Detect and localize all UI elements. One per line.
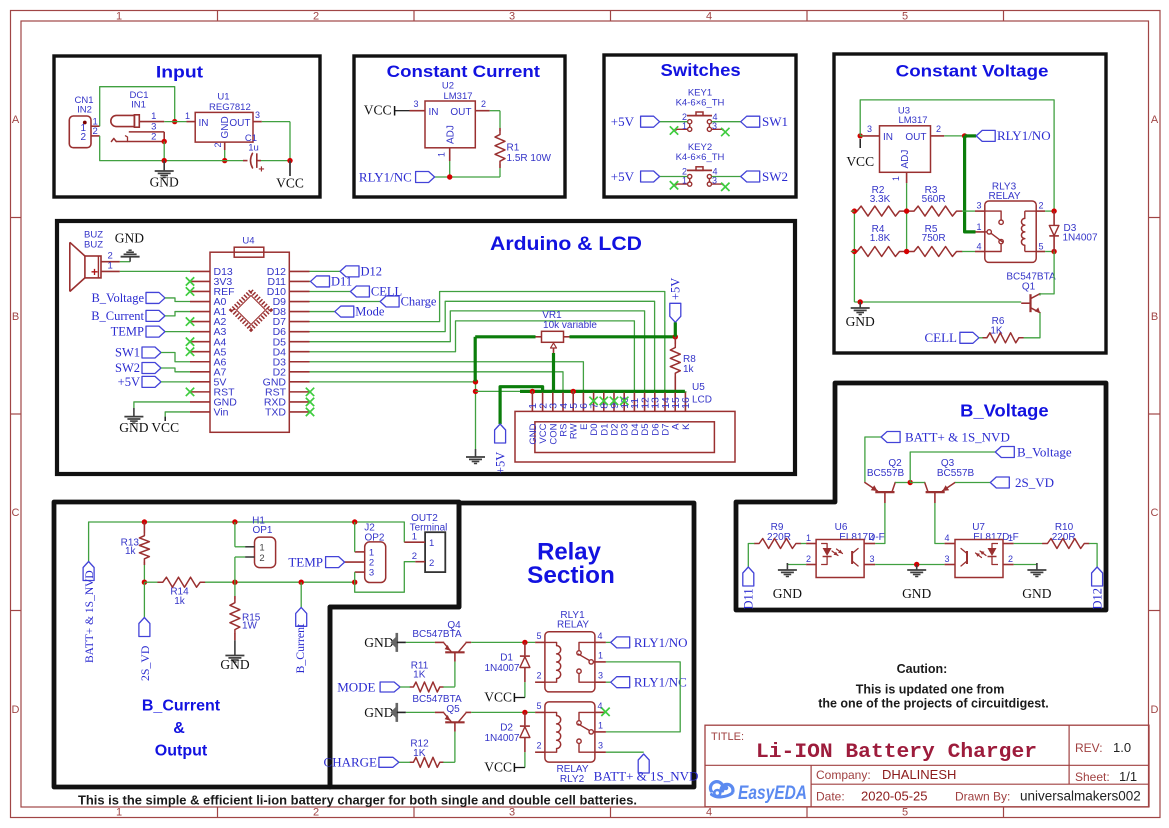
svg-text:1.0: 1.0 (1113, 740, 1131, 755)
svg-text:3: 3 (944, 554, 949, 564)
svg-text:RLY1/NC: RLY1/NC (359, 170, 412, 185)
svg-text:D12: D12 (1091, 588, 1105, 610)
svg-text:LM317: LM317 (898, 115, 927, 126)
svg-text:5: 5 (902, 11, 908, 23)
svg-text:1: 1 (116, 807, 122, 819)
svg-text:GND: GND (115, 230, 144, 245)
svg-text:2: 2 (151, 131, 156, 142)
svg-text:5: 5 (902, 807, 908, 819)
svg-text:BC547BTA: BC547BTA (412, 629, 462, 640)
svg-text:1u: 1u (248, 143, 259, 154)
svg-text:Vin: Vin (214, 407, 229, 419)
svg-text:2: 2 (412, 551, 417, 562)
svg-text:1: 1 (108, 261, 113, 272)
svg-text:B_Current: B_Current (91, 309, 144, 323)
svg-text:This is updated one from: This is updated one from (856, 682, 1005, 696)
svg-text:2020-05-25: 2020-05-25 (861, 789, 928, 804)
svg-text:3.3K: 3.3K (870, 194, 891, 205)
svg-text:1k: 1k (174, 596, 186, 607)
svg-text:B_Current: B_Current (142, 698, 221, 715)
svg-text:GND: GND (1022, 586, 1051, 601)
svg-text:IN: IN (883, 132, 893, 143)
svg-text:A: A (1151, 114, 1159, 126)
svg-text:Q1: Q1 (1022, 282, 1036, 293)
svg-text:Input: Input (156, 62, 204, 81)
svg-text:+: + (91, 265, 98, 279)
svg-text:D12: D12 (361, 264, 383, 278)
svg-text:2: 2 (429, 558, 434, 569)
svg-text:1k: 1k (683, 364, 695, 375)
svg-text:This is the simple & efficient: This is the simple & efficient li-ion ba… (78, 793, 637, 808)
svg-text:Date:: Date: (816, 790, 845, 804)
svg-text:4: 4 (870, 533, 875, 543)
svg-text:3: 3 (598, 741, 603, 751)
svg-text:+5V: +5V (611, 114, 635, 129)
svg-text:universalmakers002: universalmakers002 (1020, 789, 1141, 804)
svg-text:IN1: IN1 (131, 100, 146, 111)
svg-text:EasyEDA: EasyEDA (738, 782, 807, 804)
svg-text:U2: U2 (442, 81, 454, 92)
svg-text:2: 2 (81, 132, 87, 143)
svg-text:Output: Output (155, 743, 208, 760)
svg-text:10k variable: 10k variable (543, 320, 597, 331)
svg-text:A: A (12, 114, 20, 126)
svg-text:GND: GND (119, 420, 148, 435)
svg-text:OUT: OUT (229, 118, 250, 129)
svg-text:1K: 1K (413, 670, 426, 681)
svg-text:1N4007: 1N4007 (484, 663, 519, 674)
svg-text:1: 1 (891, 176, 901, 181)
svg-text:U1: U1 (217, 92, 229, 103)
svg-text:5: 5 (1039, 242, 1044, 252)
svg-text:VCC: VCC (484, 690, 512, 705)
svg-text:RLY1/NO: RLY1/NO (997, 128, 1051, 143)
svg-text:Drawn By:: Drawn By: (955, 790, 1010, 804)
svg-text:3: 3 (509, 807, 515, 819)
svg-text:SW2: SW2 (115, 361, 140, 375)
svg-text:2S_VD: 2S_VD (138, 645, 152, 681)
svg-text:&: & (173, 720, 185, 737)
svg-text:2: 2 (536, 671, 541, 681)
svg-text:4: 4 (944, 533, 949, 543)
svg-text:B_Voltage: B_Voltage (960, 401, 1049, 421)
svg-text:1/1: 1/1 (1119, 769, 1137, 784)
svg-text:1.5R 10W: 1.5R 10W (507, 153, 552, 164)
svg-text:3: 3 (598, 671, 603, 681)
svg-text:ADJ: ADJ (446, 125, 457, 144)
svg-text:B_Voltage: B_Voltage (1017, 445, 1072, 460)
svg-text:1k: 1k (125, 546, 137, 557)
svg-text:+5V: +5V (118, 375, 140, 389)
svg-text:REG7812: REG7812 (209, 102, 251, 113)
svg-text:Charge: Charge (401, 295, 437, 309)
svg-text:1: 1 (429, 538, 434, 549)
svg-text:TEMP: TEMP (111, 325, 144, 339)
svg-text:Sheet:: Sheet: (1075, 770, 1110, 784)
svg-text:16: 16 (680, 397, 692, 409)
svg-text:GND: GND (220, 657, 249, 672)
svg-text:the one of the projects of cir: the one of the projects of circuitdigest… (818, 696, 1049, 710)
svg-text:2: 2 (936, 124, 941, 134)
svg-text:B: B (1151, 311, 1158, 323)
svg-text:D11: D11 (742, 588, 756, 609)
svg-text:1: 1 (259, 543, 264, 554)
svg-text:R1: R1 (507, 143, 520, 154)
svg-text:5: 5 (536, 631, 541, 641)
svg-text:2: 2 (481, 99, 486, 109)
svg-text:IN2: IN2 (77, 105, 92, 116)
svg-text:U4: U4 (242, 236, 254, 247)
svg-text:GND: GND (364, 635, 393, 650)
svg-text:MODE: MODE (337, 679, 375, 694)
svg-text:D11: D11 (331, 274, 352, 288)
svg-text:CELL: CELL (925, 330, 958, 345)
svg-text:VCC: VCC (276, 175, 304, 190)
svg-text:BUZ: BUZ (84, 239, 103, 250)
svg-text:GND: GND (150, 175, 179, 190)
svg-text:REV:: REV: (1075, 741, 1103, 755)
svg-text:3: 3 (255, 110, 260, 120)
svg-text:1.8K: 1.8K (870, 233, 891, 244)
svg-text:BATT+ & 1S_NVD: BATT+ & 1S_NVD (905, 430, 1010, 445)
svg-text:RELAY: RELAY (557, 620, 589, 631)
svg-text:Arduino & LCD: Arduino & LCD (490, 233, 642, 255)
svg-text:3: 3 (509, 11, 515, 23)
svg-text:RLY1/NO: RLY1/NO (634, 635, 688, 650)
svg-text:BATT+ & 1S_NVD: BATT+ & 1S_NVD (84, 570, 96, 663)
svg-text:TEMP: TEMP (288, 555, 323, 570)
svg-text:RLY2: RLY2 (560, 774, 585, 785)
svg-text:1N4007: 1N4007 (1063, 233, 1098, 244)
svg-text:4: 4 (976, 242, 981, 252)
svg-text:TXD: TXD (265, 407, 286, 419)
svg-text:+5V: +5V (494, 452, 508, 474)
svg-text:K4-6×6_TH: K4-6×6_TH (676, 152, 725, 163)
svg-text:1: 1 (682, 121, 687, 131)
svg-text:VCC: VCC (846, 154, 874, 169)
svg-text:560R: 560R (922, 194, 946, 205)
svg-text:+5V: +5V (611, 169, 635, 184)
svg-text:GND: GND (902, 586, 931, 601)
svg-text:BATT+ & 1S_NVD: BATT+ & 1S_NVD (594, 769, 699, 784)
svg-text:BC557B: BC557B (937, 468, 975, 479)
svg-text:3: 3 (712, 121, 717, 131)
svg-text:4: 4 (598, 701, 603, 711)
svg-text:1: 1 (598, 650, 603, 660)
svg-text:SW1: SW1 (762, 114, 788, 129)
svg-text:2: 2 (1039, 201, 1044, 211)
svg-text:750R: 750R (922, 233, 946, 244)
svg-text:+: + (258, 164, 264, 176)
svg-text:GND: GND (364, 705, 393, 720)
svg-text:OP1: OP1 (252, 525, 272, 536)
svg-text:2: 2 (313, 11, 319, 23)
svg-text:3: 3 (712, 176, 717, 186)
svg-text:1: 1 (976, 222, 981, 232)
svg-text:GND: GND (846, 314, 875, 329)
svg-text:Li-ION Battery Charger: Li-ION Battery Charger (756, 741, 1037, 764)
svg-text:TITLE:: TITLE: (711, 731, 744, 743)
svg-text:3: 3 (369, 568, 374, 579)
svg-text:2: 2 (1008, 554, 1013, 564)
svg-text:4: 4 (706, 807, 712, 819)
svg-text:RLY1/NC: RLY1/NC (634, 675, 687, 690)
svg-text:1: 1 (437, 152, 447, 157)
svg-text:2S_VD: 2S_VD (1015, 475, 1054, 490)
svg-text:220R: 220R (1052, 532, 1076, 543)
svg-text:DHALINESH: DHALINESH (882, 767, 956, 782)
svg-text:VCC: VCC (364, 103, 392, 118)
svg-text:1W: 1W (242, 621, 258, 632)
svg-text:1: 1 (116, 11, 122, 23)
svg-text:VCC: VCC (151, 420, 179, 435)
svg-text:IN: IN (199, 118, 209, 129)
svg-text:3: 3 (976, 201, 981, 211)
svg-text:1: 1 (682, 176, 687, 186)
svg-text:+5V: +5V (669, 278, 683, 300)
svg-text:Constant Current: Constant Current (387, 62, 541, 81)
svg-text:C: C (1151, 507, 1159, 519)
svg-text:2: 2 (259, 553, 264, 564)
svg-text:2: 2 (313, 807, 319, 819)
svg-text:K: K (681, 423, 692, 430)
svg-text:3: 3 (413, 99, 418, 109)
svg-text:2: 2 (536, 741, 541, 751)
svg-text:BC557B: BC557B (867, 468, 905, 479)
svg-text:Company:: Company: (816, 768, 871, 782)
svg-text:GND: GND (773, 586, 802, 601)
svg-text:1: 1 (1008, 533, 1013, 543)
svg-text:1: 1 (806, 533, 811, 543)
svg-text:IN: IN (429, 107, 439, 118)
svg-text:4: 4 (706, 11, 712, 23)
svg-text:Caution:: Caution: (897, 662, 948, 676)
svg-text:OUT: OUT (905, 132, 926, 143)
svg-text:1: 1 (598, 720, 603, 730)
svg-text:SW2: SW2 (762, 169, 788, 184)
svg-text:1: 1 (185, 111, 190, 121)
svg-text:Q5: Q5 (446, 704, 460, 715)
svg-text:2: 2 (213, 142, 223, 147)
svg-text:B_Current: B_Current (293, 623, 307, 674)
svg-text:5: 5 (536, 701, 541, 711)
svg-text:CHARGE: CHARGE (324, 755, 378, 770)
svg-text:2: 2 (93, 126, 98, 137)
svg-text:OUT: OUT (450, 107, 471, 118)
svg-text:2: 2 (806, 554, 811, 564)
svg-text:Switches: Switches (661, 60, 741, 80)
svg-text:3: 3 (867, 124, 872, 134)
svg-text:B: B (12, 311, 19, 323)
svg-text:4: 4 (598, 631, 603, 641)
svg-text:U5: U5 (692, 382, 705, 393)
svg-text:EL817D-F: EL817D-F (839, 532, 885, 543)
svg-text:3: 3 (870, 554, 875, 564)
svg-text:1N4007: 1N4007 (484, 733, 519, 744)
svg-text:VCC: VCC (484, 760, 512, 775)
svg-text:K4-6×6_TH: K4-6×6_TH (676, 97, 725, 108)
svg-text:SW1: SW1 (115, 346, 140, 360)
svg-text:B_Voltage: B_Voltage (91, 291, 144, 305)
svg-text:LCD: LCD (692, 395, 712, 406)
svg-text:GND: GND (220, 116, 231, 138)
svg-text:Mode: Mode (355, 305, 385, 319)
svg-text:D: D (12, 704, 20, 716)
svg-text:C: C (12, 507, 20, 519)
svg-text:1: 1 (412, 532, 417, 543)
svg-text:D: D (1151, 704, 1159, 716)
svg-text:Constant Voltage: Constant Voltage (896, 62, 1049, 81)
svg-text:Section: Section (527, 562, 615, 589)
svg-text:ADJ: ADJ (900, 150, 911, 169)
